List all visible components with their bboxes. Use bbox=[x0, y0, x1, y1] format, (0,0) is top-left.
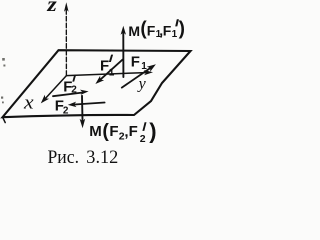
F2 arrowhead bbox=[68, 102, 77, 108]
svg-text:(: ( bbox=[102, 120, 109, 142]
label F1' bbox=[100, 55, 115, 79]
F1' arrowhead bbox=[95, 76, 104, 84]
force F1' shaft bbox=[101, 60, 123, 80]
svg-text:x: x bbox=[23, 92, 34, 113]
svg-text:): ) bbox=[179, 19, 185, 40]
edge specks bbox=[1, 58, 5, 103]
svg-text:z: z bbox=[46, 0, 57, 16]
svg-text:F: F bbox=[163, 22, 172, 38]
svg-text:1: 1 bbox=[141, 61, 147, 72]
label F2' bbox=[63, 75, 77, 96]
x axis bbox=[46, 76, 67, 99]
label F1 bbox=[131, 54, 148, 72]
z axis (dashed) bbox=[65, 10, 67, 76]
force F2' shaft bbox=[53, 93, 82, 97]
F2' arrowhead bbox=[80, 90, 89, 95]
svg-text:M: M bbox=[128, 23, 140, 39]
y arrowhead bbox=[144, 70, 153, 75]
svg-text:M: M bbox=[89, 123, 102, 140]
svg-text:2: 2 bbox=[140, 133, 146, 145]
M1 arrowhead bbox=[121, 26, 126, 35]
label M(F2,F2') bbox=[89, 118, 156, 145]
plane (parallelogram) bbox=[3, 50, 191, 117]
force F2 shaft bbox=[75, 103, 105, 105]
svg-text:F: F bbox=[129, 123, 138, 140]
force F1 shaft bbox=[122, 68, 150, 87]
label M(F1,F1') bbox=[128, 19, 185, 40]
moment arrow M2 bbox=[81, 96, 84, 121]
plane corner tail bbox=[3, 118, 5, 123]
svg-text:1: 1 bbox=[172, 29, 178, 40]
svg-text:3.12: 3.12 bbox=[86, 148, 118, 168]
svg-text:2: 2 bbox=[63, 105, 69, 116]
M2 arrowhead bbox=[80, 119, 86, 129]
svg-text:F: F bbox=[109, 123, 118, 140]
y axis bbox=[66, 73, 145, 76]
svg-text:): ) bbox=[149, 118, 156, 143]
svg-text:Рис.: Рис. bbox=[48, 148, 80, 168]
svg-text:1: 1 bbox=[109, 68, 115, 79]
svg-text:F: F bbox=[100, 57, 109, 74]
svg-text:y: y bbox=[137, 75, 147, 92]
F1 arrowhead bbox=[147, 64, 156, 72]
svg-text:F: F bbox=[131, 54, 140, 71]
label F2 bbox=[55, 97, 69, 116]
x arrowhead bbox=[41, 95, 49, 104]
z arrowhead bbox=[64, 2, 69, 12]
svg-text:F: F bbox=[147, 22, 156, 38]
moment arrow M1 bbox=[122, 33, 124, 77]
svg-text:2: 2 bbox=[71, 84, 77, 95]
